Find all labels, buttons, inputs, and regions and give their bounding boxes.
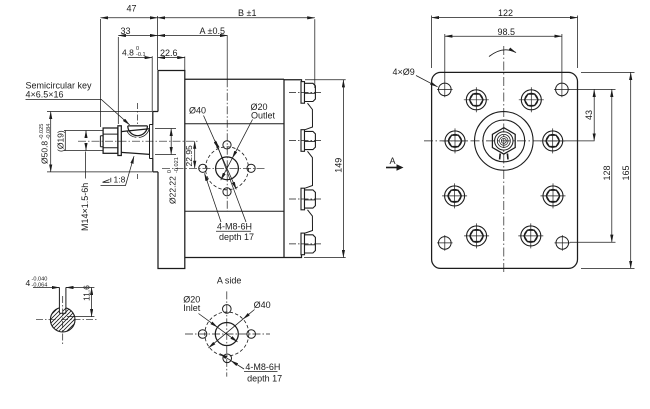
svg-text:4-M8-6H: 4-M8-6H [245,362,280,372]
svg-text:128: 128 [602,165,612,180]
svg-text:4-M8-6H: 4-M8-6H [217,222,252,232]
svg-text:A side: A side [217,276,242,286]
svg-text:22.6: 22.6 [160,48,178,58]
svg-text:-0.084: -0.084 [46,124,52,140]
svg-text:4×6.5×16: 4×6.5×16 [26,90,64,100]
svg-text:Inlet: Inlet [183,303,201,313]
svg-text:-0.1: -0.1 [136,52,146,58]
svg-text:165: 165 [621,165,631,180]
svg-text:A ±0.5: A ±0.5 [200,26,225,36]
svg-text:33: 33 [121,26,131,36]
svg-text:22.95: 22.95 [184,145,194,167]
svg-text:M14×1.5-6h: M14×1.5-6h [80,183,90,231]
svg-text:depth 17: depth 17 [247,373,282,383]
svg-text:122: 122 [498,8,513,18]
svg-text:0: 0 [167,170,173,173]
svg-text:47: 47 [127,4,137,14]
svg-text:depth 17: depth 17 [219,232,254,242]
svg-text:Ø40: Ø40 [189,106,206,116]
svg-text:Ø22.22: Ø22.22 [168,176,178,204]
svg-text:43: 43 [584,110,594,120]
svg-text:4×Ø9: 4×Ø9 [393,67,415,77]
svg-text:-0.064: -0.064 [32,282,48,288]
svg-text:B ±1: B ±1 [238,8,256,18]
svg-text:Ø50.8: Ø50.8 [40,141,50,164]
svg-text:98.5: 98.5 [498,27,516,37]
svg-text:1:8: 1:8 [114,175,126,185]
svg-text:(Ø19): (Ø19) [56,130,66,152]
svg-text:Outlet: Outlet [251,111,276,121]
svg-text:4: 4 [26,278,31,288]
svg-text:149: 149 [334,158,344,173]
svg-text:Ø40: Ø40 [254,300,271,310]
svg-text:0: 0 [136,46,139,52]
svg-text:-0.025: -0.025 [39,124,45,140]
svg-text:4.8: 4.8 [122,47,134,57]
svg-text:-0.021: -0.021 [174,157,180,173]
svg-text:A: A [390,156,396,166]
svg-text:11.6: 11.6 [82,285,92,301]
